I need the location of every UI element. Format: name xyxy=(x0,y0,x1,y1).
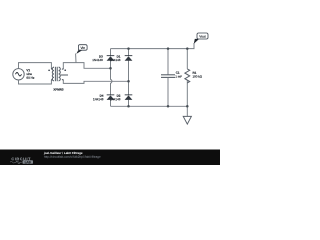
svg-text:1N4148: 1N4148 xyxy=(110,58,121,62)
resistor R1 xyxy=(185,49,190,107)
svg-text:1N4148: 1N4148 xyxy=(92,58,103,62)
V1 labels xyxy=(26,68,35,80)
svg-text:100 kΩ: 100 kΩ xyxy=(192,75,202,79)
node Vin stub xyxy=(75,54,77,63)
svg-text:http://circuitlab.com/c/5dk2hp: http://circuitlab.com/c/5dk2hp7/labii-fi… xyxy=(44,155,101,159)
diode D1 xyxy=(125,55,133,61)
transformer XFMR3 xyxy=(51,67,68,81)
junction top rail / C1 xyxy=(167,47,170,50)
wire top output rail xyxy=(111,43,195,49)
D2 labels xyxy=(110,94,121,102)
D3 labels xyxy=(92,54,103,62)
transformer phase dot primary xyxy=(48,69,50,71)
wire left rail (with hop over crossing) xyxy=(111,49,112,107)
junction top rail / D1 cathode xyxy=(127,47,130,50)
wire secondary bottom to bridge xyxy=(63,81,128,84)
diode D3 xyxy=(107,55,115,61)
footer text xyxy=(43,151,101,159)
wire V1 loop xyxy=(19,63,52,84)
R1 labels xyxy=(192,71,202,79)
svg-text:Vin: Vin xyxy=(80,46,85,50)
voltage source V1 xyxy=(13,69,24,80)
wire right rail xyxy=(128,49,130,107)
transformer phase dot secondary xyxy=(64,69,66,71)
footer bar xyxy=(0,150,220,166)
C1 labels xyxy=(175,71,182,79)
diode D2 xyxy=(125,94,133,100)
svg-text:Vout: Vout xyxy=(199,35,205,39)
diode D4 xyxy=(107,94,115,100)
junction bottom rail / D2 anode xyxy=(127,105,130,108)
junction bottom rail / C1 xyxy=(167,105,170,108)
wire secondary top to bridge xyxy=(63,63,110,69)
svg-text:XFMR3: XFMR3 xyxy=(53,88,64,92)
flag Vin xyxy=(76,45,87,54)
junction D1-D2 midpoint (secondary bottom feed) xyxy=(127,80,130,83)
flag Vout xyxy=(194,33,208,44)
svg-text:1 mF: 1 mF xyxy=(175,74,182,78)
junction D3-D4 midpoint (secondary top feed) xyxy=(109,67,112,70)
junction top rail / R1 xyxy=(186,47,189,50)
D4 labels xyxy=(93,94,104,102)
svg-text:LAB: LAB xyxy=(25,160,32,164)
D1 labels xyxy=(110,54,121,62)
wire bottom rail xyxy=(111,105,188,107)
svg-text:60 Hz: 60 Hz xyxy=(26,76,35,80)
ground xyxy=(183,106,191,124)
capacitor C1 xyxy=(161,49,175,107)
footer CircuitLab logo xyxy=(10,157,33,164)
svg-text:1N4148: 1N4148 xyxy=(110,97,121,101)
junction bottom rail / R1 / ground xyxy=(186,105,189,108)
svg-text:1N4148: 1N4148 xyxy=(93,97,104,101)
